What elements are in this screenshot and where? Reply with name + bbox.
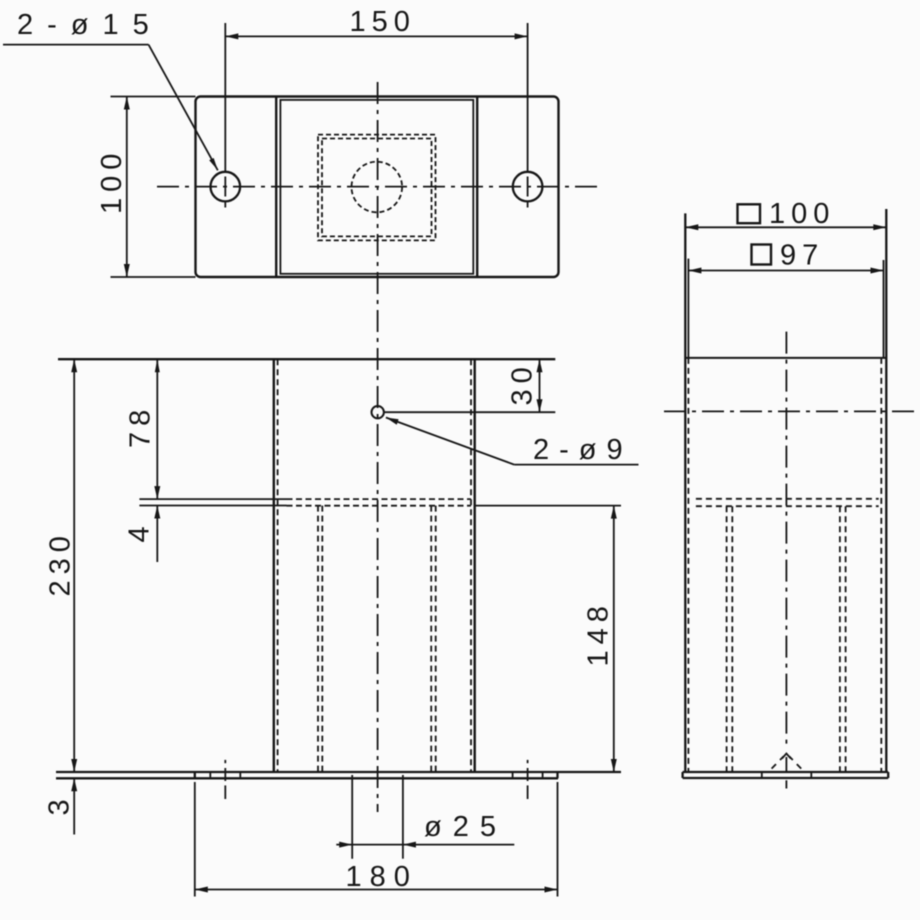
dimension 4 line — [156, 506, 158, 563]
square tube inner wall (top view) — [280, 100, 473, 274]
hidden anchor box outer (top view, dashed) — [318, 135, 436, 241]
base plate top line (front view) — [56, 771, 621, 773]
base plate (side view) right edge — [887, 772, 889, 778]
hidden top of anchor plate (front view, dashed) — [287, 498, 472, 500]
svg-text:150: 150 — [350, 6, 416, 38]
svg-text:180: 180 — [346, 861, 418, 893]
extension line inner right (97) — [883, 260, 885, 358]
inner wall hidden right (side view) — [880, 358, 882, 772]
svg-text:3: 3 — [44, 793, 76, 815]
extension lines for phi25 — [351, 775, 353, 859]
dimension 3 line — [73, 778, 75, 834]
extension lines for 180 — [194, 782, 196, 897]
extension line inner left (97) — [687, 259, 689, 358]
label box100 square — [738, 204, 761, 223]
left hole vertical centerline / extension line for 150 — [224, 23, 226, 172]
tube outer edge right (front view) — [474, 359, 476, 772]
right hole vertical centerline / extension line for 150 — [527, 23, 529, 172]
tube inner wall right hidden (front view) — [470, 359, 472, 772]
square tube outer wall (top view) left — [275, 97, 277, 278]
hidden circle phi25 (top view, dashed) — [352, 162, 403, 213]
dimension box97 line — [688, 270, 883, 272]
svg-text:ø25: ø25 — [424, 811, 507, 843]
base plate bottom line (front view) — [56, 777, 558, 779]
extension line y497 — [139, 498, 286, 500]
dimension 30 line — [539, 359, 541, 412]
svg-text:230: 230 — [45, 530, 77, 596]
phi15 hole centerline left (through base plate) — [224, 760, 226, 763]
side view outer edge left — [684, 213, 686, 772]
dimension 100 line (left of top view) — [126, 97, 128, 278]
extension lines for 100 — [111, 96, 196, 98]
tube inner wall left hidden (front view) — [277, 359, 279, 772]
vertical centerline (side view) — [785, 332, 787, 749]
leader 2-phi9 — [514, 464, 638, 466]
front view top edge (with extensions) — [58, 358, 555, 360]
svg-text:2-ø9: 2-ø9 — [533, 434, 633, 466]
base plate (side view) bottom line — [683, 777, 889, 779]
hidden anchor tubes (front view, dashed verticals) — [317, 506, 319, 772]
top view plate outline — [196, 97, 559, 278]
phi25 hole hidden edges (side view) — [761, 772, 763, 778]
svg-text:78: 78 — [125, 404, 157, 448]
dimension 150 line — [225, 35, 527, 37]
svg-text:97: 97 — [780, 240, 824, 272]
horizontal centerline (top view) — [157, 186, 601, 188]
hole phi15 left — [211, 172, 241, 202]
hidden anchor box inner (top view, dashed) — [322, 139, 432, 237]
leader 2-phi15 arrow line — [149, 45, 218, 171]
base plate (side view) left edge — [681, 772, 683, 778]
dimension 78 line — [156, 359, 158, 499]
extension line for 148 top — [475, 505, 621, 507]
hidden anchor plate (side view, dashed) — [696, 498, 879, 500]
dimension phi25 line with outside arrows — [336, 844, 514, 846]
svg-text:148: 148 — [583, 600, 615, 666]
svg-text:30: 30 — [507, 361, 539, 405]
svg-text:4: 4 — [124, 520, 156, 542]
hole phi15 right — [513, 172, 543, 202]
horizontal centerline (side view) — [664, 410, 920, 412]
side view tube top edge — [685, 357, 886, 359]
anchor bolt point (side view, dashed cone) — [772, 764, 776, 769]
hidden anchor tubes (side view, dashed verticals) — [726, 506, 728, 772]
hole phi9 (front view) — [372, 406, 384, 418]
svg-text:100: 100 — [769, 198, 835, 230]
dimension 230 line — [73, 359, 75, 772]
dimension 148 line — [613, 506, 615, 772]
tube outer edge left (front view) — [273, 359, 275, 772]
label box97 square — [752, 245, 772, 265]
base plate left edge — [194, 772, 196, 778]
dimension 180 line — [195, 889, 558, 891]
base plate (side view) top line — [683, 771, 889, 773]
extension line at hole level for 30 — [384, 411, 555, 413]
phi15 hole hidden edges left — [209, 772, 211, 777]
leader 2-phi15 underline — [3, 44, 149, 46]
base plate right edge — [556, 772, 558, 778]
svg-text:2-ø15: 2-ø15 — [17, 9, 163, 41]
phi15 hole centerline right (through base plate) — [527, 760, 529, 763]
phi15 hole hidden edges right — [512, 772, 514, 777]
side view outer edge right — [885, 209, 887, 772]
dimension box100 line — [685, 226, 886, 228]
vertical centerline (top+front views) — [377, 82, 379, 812]
inner wall hidden left (side view) — [687, 358, 689, 772]
svg-text:100: 100 — [96, 148, 128, 214]
square tube outer wall (top view) right — [476, 97, 478, 278]
extension line y501.8 — [139, 505, 286, 507]
